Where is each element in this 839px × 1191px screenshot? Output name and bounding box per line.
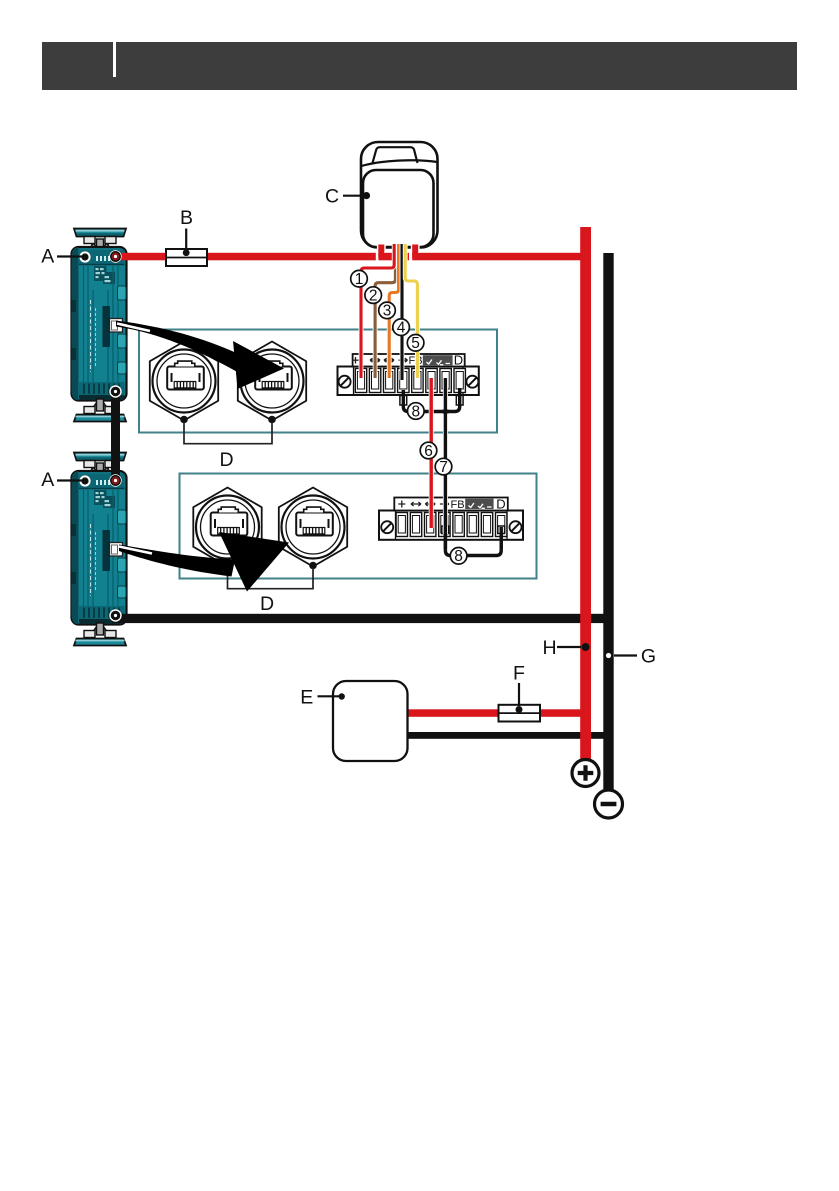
svg-text:G: G bbox=[641, 646, 656, 668]
svg-text:F: F bbox=[513, 663, 525, 685]
svg-text:5: 5 bbox=[411, 335, 420, 352]
svg-text:8: 8 bbox=[411, 403, 420, 420]
svg-text:H: H bbox=[542, 637, 556, 659]
svg-text:7: 7 bbox=[439, 459, 448, 476]
svg-text:E: E bbox=[300, 687, 313, 709]
svg-text:D: D bbox=[454, 353, 463, 368]
svg-text:8: 8 bbox=[454, 548, 463, 565]
svg-text:3: 3 bbox=[383, 303, 392, 320]
svg-text:C: C bbox=[325, 186, 339, 208]
svg-text:1: 1 bbox=[355, 271, 364, 288]
svg-text:D: D bbox=[219, 449, 233, 471]
svg-text:6: 6 bbox=[424, 443, 433, 460]
svg-text:FB: FB bbox=[450, 499, 464, 511]
svg-text:4: 4 bbox=[397, 320, 406, 337]
svg-text:A: A bbox=[41, 246, 54, 268]
svg-text:A: A bbox=[41, 469, 54, 491]
svg-text:B: B bbox=[180, 207, 193, 229]
svg-text:D: D bbox=[496, 497, 505, 512]
svg-text:2: 2 bbox=[369, 287, 378, 304]
svg-text:D: D bbox=[260, 593, 274, 615]
